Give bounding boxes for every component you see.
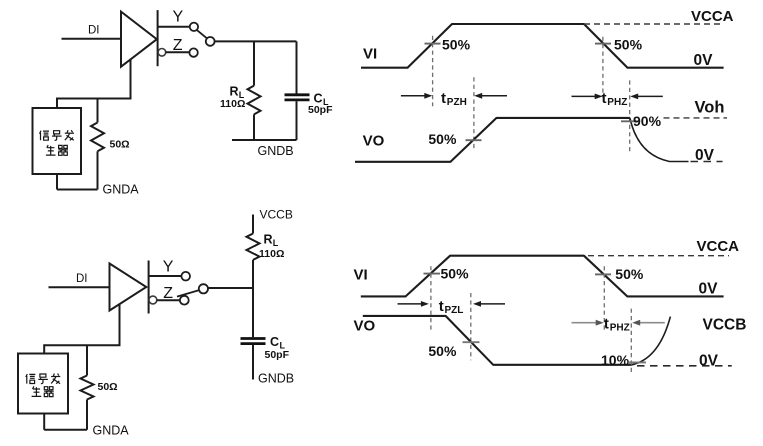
arrow tPZL left (398, 303, 426, 305)
svg-text:R: R (264, 233, 273, 247)
svg-text:50%: 50% (442, 37, 471, 53)
wire CL bottom lead (296, 101, 298, 140)
dashed marker VO 90% (629, 80, 631, 151)
node VI waveform (bottom) (361, 256, 724, 297)
switch contact Z (bottom) (180, 296, 189, 305)
svg-text:0V: 0V (699, 280, 719, 297)
svg-text:10%: 10% (601, 352, 630, 368)
net VCCA dashed level (bottom) (588, 255, 729, 257)
wire 50ohm bottom lead (bottom) (86, 400, 88, 430)
wire GNDB rail (232, 139, 297, 141)
wire pole to load node (215, 40, 297, 42)
tick 50% rise (bottom VI) (424, 273, 441, 275)
wire VCCB lead (252, 215, 254, 234)
svg-text:VO: VO (363, 133, 385, 150)
dashed marker VO 10% (bottom) (630, 309, 632, 376)
wire Z output (166, 51, 190, 53)
svg-text:VI: VI (363, 46, 377, 63)
VO turn-off decay curve (top) (630, 118, 689, 162)
arrow tPHZ right (bottom, gray) (636, 322, 665, 324)
svg-text:DI: DI (88, 24, 100, 36)
capacitor CL 50pF (285, 93, 310, 96)
wire pole to node (208, 287, 253, 289)
resistor RL 110ohm (248, 86, 261, 115)
wire DI input (bottom) (49, 286, 110, 288)
svg-text:t: t (604, 315, 609, 332)
svg-text:PZH: PZH (447, 97, 467, 108)
svg-text:PHZ: PHZ (607, 97, 627, 108)
signal generator label line1 (bottom) (26, 374, 61, 384)
svg-text:0V: 0V (699, 353, 719, 370)
tick 50% rise (top VI) (425, 43, 441, 45)
op-amp buffer U2 triangle (110, 264, 147, 311)
wire Z output (bottom) (157, 299, 180, 301)
svg-text:VCCA: VCCA (691, 8, 734, 25)
tick 50% (top VO) (466, 139, 482, 141)
arrow tPHZ left (bottom, gray) (572, 322, 601, 324)
svg-text:R: R (230, 85, 239, 99)
arrow tPZL right (476, 303, 505, 305)
svg-text:GNDB: GNDB (258, 144, 294, 158)
tick 50% fall (bottom VI) (595, 273, 611, 275)
dashed 0V tail (bottom VO) (637, 365, 732, 367)
wire RL to node (252, 260, 254, 337)
switch contact Z (189, 48, 197, 56)
svg-text:DI: DI (76, 273, 88, 285)
tick 50% fall (top VI) (595, 43, 611, 45)
capacitor CL 50pF (bottom) (241, 337, 266, 340)
wire CL top lead (296, 41, 298, 93)
svg-text:50%: 50% (615, 266, 644, 282)
dashed marker VI 50% fall (bottom) (603, 266, 605, 330)
resistor RL 110ohm (bottom) (247, 234, 260, 260)
wire generator bottom lead (56, 174, 58, 190)
svg-text:110Ω: 110Ω (259, 248, 284, 260)
svg-text:VCCA: VCCA (697, 238, 740, 255)
tick 90% (top VO) (621, 120, 638, 122)
svg-text:0V: 0V (694, 52, 714, 69)
buffer output bar (157, 10, 159, 66)
net VCCA dashed level (top) (584, 23, 724, 25)
svg-text:110Ω: 110Ω (220, 98, 245, 110)
tick 10% (bottom VO) (629, 361, 646, 363)
arrow tPHZ left (top) (572, 95, 600, 97)
wire Y output (158, 26, 190, 28)
arrow tPHZ right (top) (634, 95, 663, 97)
dashed marker VI 50% rise (432, 36, 434, 106)
switch contact Y (bottom) (181, 272, 190, 281)
node VI waveform (top) (361, 24, 724, 68)
wire GNDA rail (bottom) (44, 429, 87, 431)
arrow tPZH left (401, 95, 429, 97)
svg-text:50pF: 50pF (265, 349, 290, 361)
wire Y output (bottom) (149, 275, 181, 277)
svg-text:50Ω: 50Ω (98, 381, 118, 393)
wire RL bottom lead (253, 114, 255, 140)
dashed 0V tail (top VO) (691, 161, 723, 163)
tick 50% (bottom VO) (463, 341, 480, 343)
resistor 50ohm source termination (bottom) (81, 376, 94, 400)
switch contact Z stub (bottom) (149, 296, 157, 304)
switch contact Y (190, 23, 198, 31)
resistor 50ohm source termination (91, 123, 104, 152)
svg-text:GNDA: GNDA (103, 183, 140, 197)
wire driver ground tap (57, 59, 131, 108)
svg-text:50%: 50% (428, 131, 457, 147)
svg-text:Z: Z (173, 37, 183, 54)
svg-text:VCCB: VCCB (260, 208, 293, 222)
switch contact Z stub (158, 49, 166, 57)
signal generator label line1 (40, 130, 74, 140)
wire 50ohm bottom lead (97, 151, 99, 189)
svg-text:PZL: PZL (445, 305, 464, 316)
svg-text:Y: Y (173, 9, 184, 26)
svg-text:50%: 50% (614, 37, 643, 53)
svg-text:Z: Z (163, 285, 173, 302)
wire 50ohm top lead (97, 99, 99, 123)
svg-text:VCCB: VCCB (703, 317, 747, 334)
wire CL bottom lead to GNDB (252, 345, 254, 380)
svg-text:90%: 90% (633, 113, 662, 129)
svg-text:0V: 0V (695, 147, 715, 164)
svg-text:PHZ: PHZ (610, 323, 630, 334)
svg-text:GNDB: GNDB (258, 372, 294, 386)
wire RL top lead (253, 41, 255, 85)
svg-text:VO: VO (354, 317, 376, 334)
signal generator label line2 (46, 145, 68, 155)
node VO waveform (bottom) (363, 316, 632, 365)
node VO waveform (top) (355, 118, 630, 162)
switch pole S2 (199, 284, 208, 293)
svg-text:50%: 50% (428, 343, 457, 359)
svg-text:50%: 50% (441, 266, 470, 282)
svg-text:VI: VI (354, 267, 368, 284)
dashed marker VI 50% rise (bottom) (430, 266, 432, 332)
svg-text:L: L (273, 238, 279, 248)
wire 50ohm top lead (bottom) (86, 345, 88, 375)
signal generator box (bottom) (18, 354, 68, 414)
wire generator bottom lead (bottom) (43, 414, 45, 430)
switch arm (bottom) (177, 290, 199, 296)
svg-text:t: t (441, 90, 446, 107)
svg-text:GNDA: GNDA (93, 424, 130, 438)
signal generator box (33, 108, 82, 174)
dashed marker VO 50% rise (473, 77, 475, 149)
signal generator label line2 (bottom) (32, 386, 54, 396)
dashed marker VO 50% fall (bottom) (470, 293, 472, 360)
wire DI input (62, 38, 122, 40)
svg-text:C: C (270, 335, 279, 349)
svg-text:Voh: Voh (695, 99, 725, 117)
buffer output bar (bottom) (148, 261, 150, 314)
wire driver ground tap (bottom) (44, 304, 119, 353)
svg-text:Y: Y (163, 259, 174, 276)
wire GNDA rail (57, 189, 98, 191)
op-amp buffer U1 triangle (121, 12, 157, 67)
svg-text:50Ω: 50Ω (110, 139, 130, 151)
switch arm (197, 30, 207, 38)
arrow tPZH right (478, 95, 508, 97)
net Voh dashed level (664, 117, 728, 119)
svg-text:t: t (602, 90, 607, 107)
svg-text:t: t (439, 298, 444, 315)
switch pole S1 (206, 37, 215, 46)
svg-text:50pF: 50pF (308, 104, 333, 116)
VO turn-off rise curve (bottom) (632, 317, 671, 365)
dashed marker VI 50% fall (602, 37, 604, 98)
